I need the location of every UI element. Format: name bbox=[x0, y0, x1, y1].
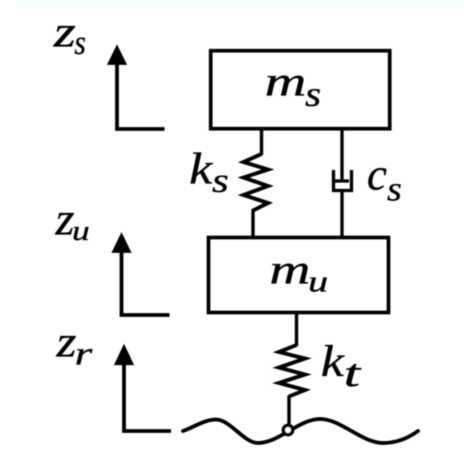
svg-text:u: u bbox=[308, 265, 328, 299]
svg-text:r: r bbox=[75, 337, 93, 373]
svg-text:s: s bbox=[387, 169, 402, 208]
svg-text:m: m bbox=[265, 59, 307, 106]
svg-text:m: m bbox=[269, 246, 310, 293]
svg-text:c: c bbox=[367, 148, 387, 199]
svg-text:k: k bbox=[189, 144, 214, 193]
svg-text:s: s bbox=[212, 161, 229, 200]
svg-text:u: u bbox=[72, 215, 90, 247]
svg-text:k: k bbox=[321, 336, 346, 386]
svg-text:z: z bbox=[55, 316, 76, 366]
svg-text:t: t bbox=[344, 352, 362, 395]
svg-text:z: z bbox=[53, 6, 76, 56]
svg-text:s: s bbox=[74, 24, 85, 62]
svg-text:s: s bbox=[305, 74, 321, 114]
